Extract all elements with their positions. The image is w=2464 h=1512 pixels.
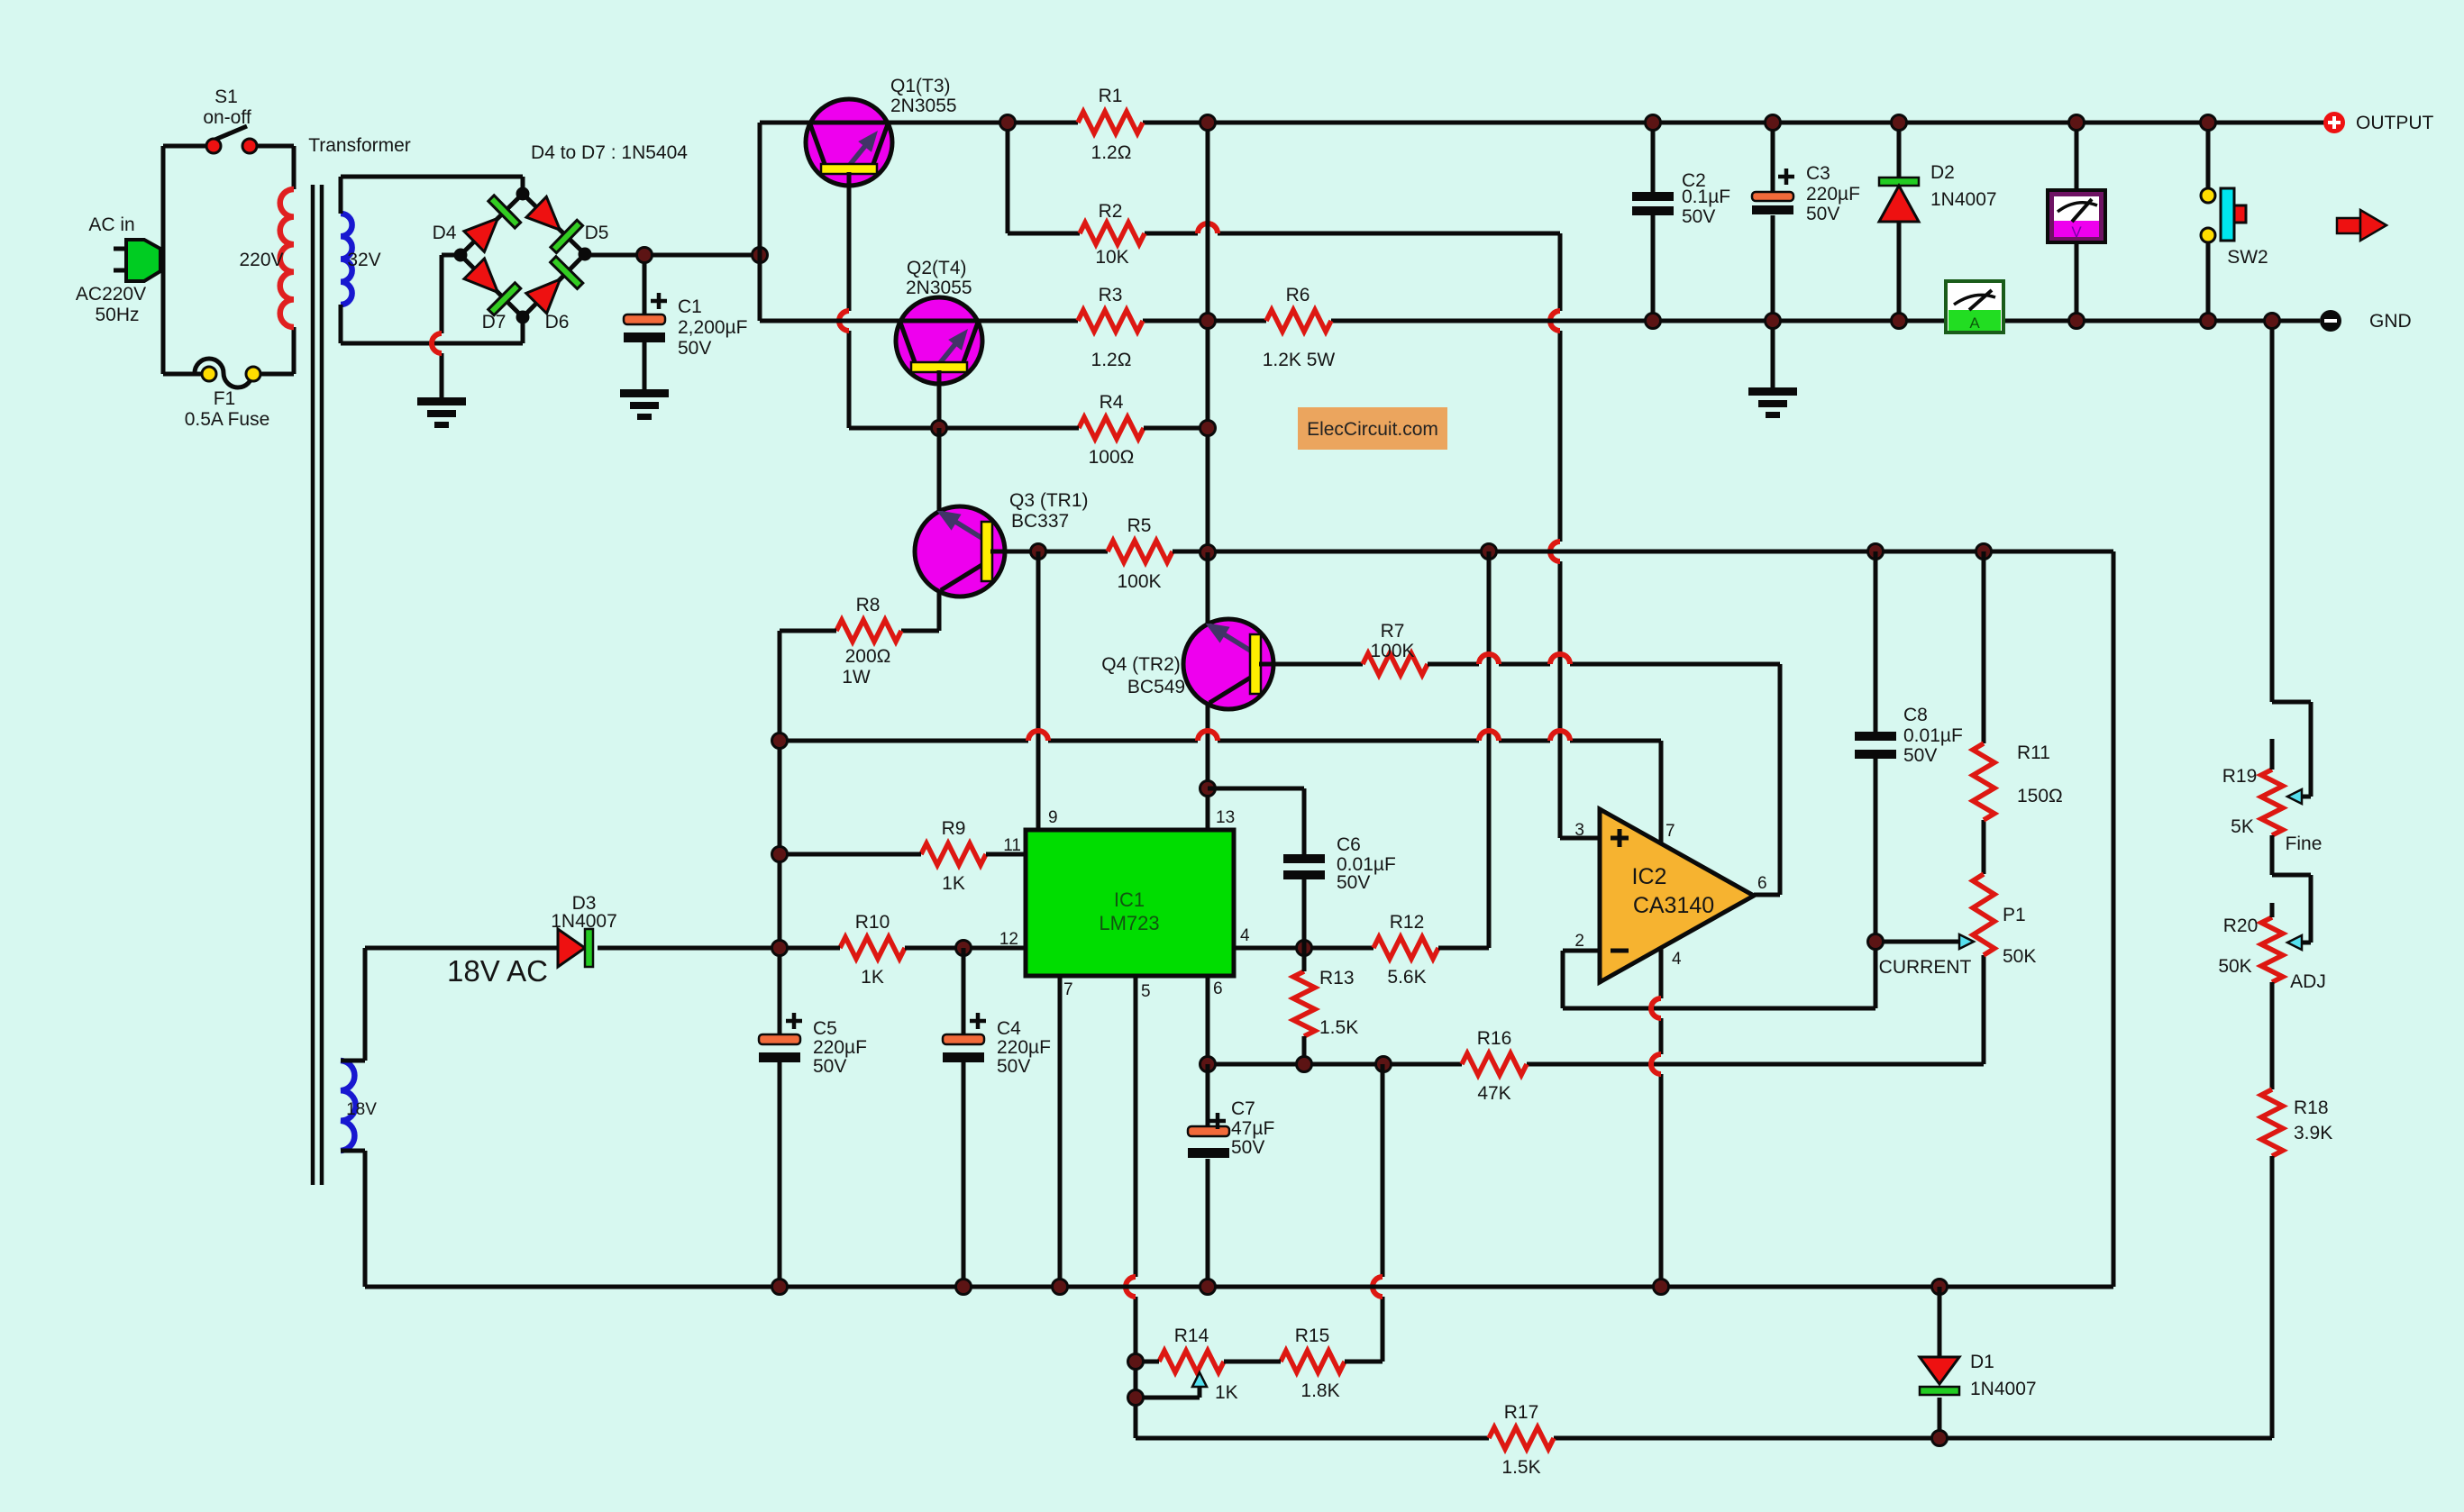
hop sense wire over GND rail [1550, 311, 1560, 331]
wire R18 bottom to R17 row [2270, 1156, 2275, 1438]
label C1 2,200uF 50V [678, 296, 747, 359]
label C4 220uF 50V [997, 1018, 1051, 1077]
svg-text:BC549: BC549 [1127, 677, 1185, 697]
switch SW2 body [2221, 188, 2246, 241]
label S1 [203, 87, 251, 128]
label Fine [2286, 833, 2323, 854]
wire 32V winding to bridge [341, 177, 523, 343]
label D6 [545, 312, 570, 332]
node drive rail R11 [1976, 544, 1992, 560]
wire R20 to R18 [2270, 982, 2275, 1089]
label OUTPUT [2356, 113, 2434, 133]
svg-text:50V: 50V [1682, 206, 1715, 227]
label R19 5K [2222, 766, 2258, 837]
svg-text:18V AC: 18V AC [447, 954, 548, 988]
label R20 50K [2218, 915, 2258, 977]
svg-text:D7: D7 [482, 312, 506, 332]
node bottom rail pin4 IC2 [1654, 1280, 1669, 1295]
svg-text:R11: R11 [2017, 742, 2050, 763]
svg-text:100Ω: 100Ω [1089, 447, 1135, 468]
svg-text:on-off: on-off [203, 107, 251, 128]
node bottom rail C7 [1200, 1280, 1216, 1295]
svg-text:R20: R20 [2223, 915, 2259, 936]
resistor R17 [1489, 1427, 1554, 1449]
junction bridge top [516, 187, 530, 201]
label R4 100ohm [1089, 392, 1135, 468]
label R8 200ohm 1W [842, 595, 890, 688]
hop R7 row over sense wire [1550, 654, 1570, 664]
svg-text:CURRENT: CURRENT [1879, 957, 1972, 978]
label R11 150ohm [2017, 742, 2063, 806]
label R10 1K [855, 912, 890, 988]
resistor R10 [840, 937, 905, 959]
svg-text:R2: R2 [1099, 201, 1123, 222]
capacitor C7 [1188, 1126, 1229, 1158]
wire R19 bottom jog to R20 wiper [2272, 835, 2311, 943]
wire R9 row [780, 852, 1026, 857]
label 1K R14 [1215, 1382, 1238, 1403]
hop pin4 over minus loop [1651, 998, 1661, 1018]
svg-text:D6: D6 [545, 312, 570, 332]
label Q2(T4) 2N3055 [906, 258, 972, 298]
svg-text:1.8K: 1.8K [1300, 1380, 1339, 1401]
svg-text:50V: 50V [1231, 1137, 1264, 1158]
label R9 1K [942, 818, 966, 894]
hop y822 over x1652 [1479, 731, 1499, 741]
svg-text:100K: 100K [1370, 641, 1414, 661]
svg-text:150Ω: 150Ω [2017, 786, 2063, 806]
resistor R14 (pot) [1159, 1351, 1224, 1372]
wire x1652 vertical [1444, 551, 1489, 948]
wire ground row y356 [760, 319, 2320, 323]
svg-text:4: 4 [1672, 950, 1682, 969]
ground symbol at C1 [620, 389, 669, 420]
svg-text:R17: R17 [1504, 1402, 1539, 1423]
svg-text:GND: GND [2369, 311, 2412, 332]
label Transformer [308, 135, 411, 156]
wire R8 left to x865 vertical [780, 631, 836, 1287]
label C7 47uF 50V [1231, 1098, 1274, 1158]
wire Q3 emitter to R4 node [937, 428, 942, 511]
svg-text:32V: 32V [347, 250, 380, 270]
wire V meter leads [2075, 123, 2079, 321]
svg-text:3: 3 [1574, 821, 1584, 840]
transistor Q4 [1183, 619, 1273, 709]
wire R14 R15 row [1136, 1360, 1383, 1364]
resistor R3 [1078, 310, 1143, 332]
capacitor C4 [943, 1034, 984, 1062]
node bottom rail C4 [956, 1280, 972, 1295]
node top rail C2 [1646, 115, 1661, 131]
diode D5 [526, 196, 583, 252]
plus C1 [651, 293, 667, 309]
resistor R6 [1266, 310, 1331, 332]
wire pin9 vertical [1036, 551, 1041, 830]
wire C3 leads [1771, 123, 1775, 387]
svg-text:1.2K 5W: 1.2K 5W [1263, 350, 1336, 370]
node drive rail C8 [1868, 544, 1884, 560]
hop R7 row over x1652 [1479, 654, 1499, 664]
svg-text:R6: R6 [1286, 285, 1310, 305]
junction bridge left [454, 249, 468, 262]
hop sense wire over drive rail [1550, 542, 1560, 561]
svg-text:6: 6 [1757, 874, 1767, 893]
node C8 P1 wiper minus [1868, 934, 1884, 950]
transformer primary coil 220V [280, 189, 294, 327]
label IC2 CA3140 [1632, 864, 1715, 918]
wire x1534 vertical [1381, 1064, 1385, 1362]
hop y822 over sense wire [1550, 731, 1570, 741]
svg-text:1K: 1K [942, 873, 965, 894]
svg-text:LM723: LM723 [1099, 912, 1159, 934]
svg-text:220V: 220V [239, 250, 283, 270]
pin label 5 IC1 [1141, 982, 1151, 1001]
svg-text:18V: 18V [346, 1100, 377, 1119]
fuse F1 [195, 359, 260, 387]
meter A body [1946, 281, 2003, 332]
svg-text:7: 7 [1665, 822, 1675, 841]
wire R11 P1 column [1982, 551, 1986, 874]
label Q1(T3) 2N3055 [890, 76, 957, 116]
potentiometer R20 (vertical) [2261, 917, 2283, 982]
node top rail SW2 [2201, 115, 2216, 131]
wire Q3 base to R5 [990, 550, 1108, 554]
label R7 100K [1370, 621, 1414, 661]
svg-text:ADJ: ADJ [2290, 971, 2326, 992]
diode D3 [558, 929, 593, 967]
IC U1 LM723 box [1026, 830, 1234, 976]
svg-text:50K: 50K [2003, 946, 2036, 967]
svg-text:R10: R10 [855, 912, 890, 933]
node drive rail x1652 [1482, 544, 1497, 560]
label F1 0.5A Fuse [185, 388, 270, 430]
pin label 11 [1003, 836, 1021, 855]
svg-text:50V: 50V [1806, 204, 1839, 224]
wire R12 right up x1652 (in x1652 group) [1438, 946, 1444, 951]
svg-text:Q3 (TR1): Q3 (TR1) [1009, 490, 1089, 511]
label R17 1.5K [1501, 1402, 1540, 1478]
node wiper row [1128, 1390, 1144, 1406]
label GND [2369, 311, 2412, 332]
pin label 13 [1216, 808, 1235, 827]
wire C2 leads [1651, 123, 1656, 321]
svg-text:C7: C7 [1231, 1098, 1255, 1119]
svg-text:C4: C4 [997, 1018, 1021, 1039]
ground symbol at bridge [417, 397, 466, 428]
wire P1 wiper from C8 node [1875, 940, 1961, 944]
plus C5 [786, 1013, 802, 1029]
wire base drive row y822 [780, 741, 1661, 843]
node Q3 base [1031, 544, 1046, 560]
svg-text:1.5K: 1.5K [1319, 1017, 1358, 1038]
capacitor C6 [1283, 854, 1325, 879]
meter V body [2048, 190, 2105, 242]
svg-text:AC220V: AC220V [76, 284, 146, 305]
svg-text:220µF: 220µF [813, 1037, 867, 1058]
wiper arrow R14 [1192, 1372, 1207, 1387]
svg-text:50V: 50V [1903, 745, 1937, 766]
plus C7 [1209, 1113, 1226, 1129]
node gnd rail SW2 [2201, 314, 2216, 329]
label R16 47K [1477, 1028, 1512, 1104]
node C1 top [637, 248, 653, 263]
wire R17 row [1136, 1436, 2272, 1441]
svg-text:CA3140: CA3140 [1633, 893, 1714, 918]
label D4 to D7 : 1N5404 [531, 142, 688, 163]
svg-text:7: 7 [1063, 980, 1073, 999]
svg-text:V: V [2071, 223, 2082, 241]
svg-text:50V: 50V [997, 1056, 1030, 1077]
label R1 1.2ohm [1091, 86, 1132, 163]
svg-text:1.5K: 1.5K [1501, 1457, 1540, 1478]
wire drive rail y612 [1208, 551, 2113, 1287]
node R3 R6 junction [1200, 314, 1216, 329]
plus sign IC2 [1611, 829, 1629, 847]
junction bridge right [579, 248, 592, 261]
resistor R13 (vertical) [1293, 971, 1315, 1036]
capacitor C5 [759, 1034, 800, 1062]
svg-text:R12: R12 [1390, 912, 1425, 933]
svg-text:11: 11 [1003, 836, 1021, 855]
connector AC plug [126, 240, 160, 281]
wire AC-input left loop [114, 146, 294, 374]
svg-text:C1: C1 [678, 296, 702, 317]
node R4 right [1200, 421, 1216, 436]
svg-text:ElecCircuit.com: ElecCircuit.com [1307, 419, 1438, 440]
node R14 left [1128, 1354, 1144, 1370]
label IC1 LM723 [1099, 888, 1159, 934]
wire pin5 IC1 down [1134, 976, 1138, 1438]
hop y822 over pin9 [1028, 731, 1048, 741]
capacitor C8 [1855, 732, 1896, 759]
svg-text:C6: C6 [1337, 834, 1361, 855]
wire pin7 IC1 down [1058, 976, 1063, 1287]
svg-text:R13: R13 [1319, 968, 1355, 988]
wire pin4 row [1234, 946, 1373, 951]
wire R4 row [939, 426, 1208, 431]
wire Q4 collector to pin13 [1206, 705, 1210, 830]
svg-text:3.9K: 3.9K [2294, 1123, 2332, 1143]
hop ground wire over 32V return [432, 333, 442, 353]
potentiometer P1 (vertical) [1973, 874, 1994, 955]
svg-text:D4 to D7 : 1N5404: D4 to D7 : 1N5404 [531, 142, 688, 163]
resistor R16 [1462, 1053, 1527, 1075]
svg-text:Fine: Fine [2286, 833, 2323, 854]
svg-text:C3: C3 [1806, 163, 1830, 184]
hop x1534 over bottom rail [1373, 1277, 1383, 1297]
label C2 0.1uF 50V [1682, 170, 1730, 227]
label R12 5.6K [1387, 912, 1426, 988]
node pin4 R12 R13 [1297, 941, 1312, 956]
svg-text:50V: 50V [678, 338, 711, 359]
wire R2 to IC2 plus input [1145, 233, 1600, 838]
svg-text:13: 13 [1216, 808, 1235, 827]
hop Q1 emitter over GND rail [839, 311, 849, 331]
svg-text:0.5A Fuse: 0.5A Fuse [185, 409, 270, 430]
switch S1 lever [213, 126, 247, 141]
node corner to pass transistors [753, 248, 768, 263]
label P1 50K [2003, 905, 2036, 967]
node bottom rail pin7 [1053, 1280, 1068, 1295]
svg-text:1K: 1K [861, 967, 884, 988]
label D1 1N4007 [1970, 1352, 2037, 1399]
svg-text:R19: R19 [2222, 766, 2258, 787]
svg-text:50K: 50K [2218, 956, 2251, 977]
svg-text:Q1(T3): Q1(T3) [890, 76, 951, 96]
label R3 1.2ohm [1091, 285, 1132, 370]
plus C3 [1778, 169, 1794, 185]
svg-text:R14: R14 [1174, 1325, 1209, 1346]
node top rail D2 [1892, 115, 1907, 131]
label R6 1.2K 5W [1263, 285, 1336, 370]
transistor Q3 [915, 506, 1005, 597]
node pin6 C7 [1200, 1057, 1216, 1072]
wire bridge diamond edges [461, 194, 585, 317]
svg-text:OUTPUT: OUTPUT [2356, 113, 2434, 133]
label R13 1.5K [1319, 968, 1358, 1038]
pin label 7 IC2 [1665, 822, 1675, 841]
svg-text:5.6K: 5.6K [1387, 967, 1426, 988]
svg-text:1N4007: 1N4007 [551, 911, 617, 932]
hop pin4 over R16 row [1651, 1054, 1661, 1074]
svg-text:R16: R16 [1477, 1028, 1512, 1049]
resistor R18 (vertical) [2261, 1089, 2283, 1156]
wire Q4 emitter [1206, 552, 1210, 624]
svg-text:2N3055: 2N3055 [890, 96, 957, 116]
wire D2 leads [1897, 123, 1902, 321]
svg-text:2: 2 [1574, 932, 1584, 951]
svg-text:SW2: SW2 [2227, 247, 2268, 268]
op-amp IC2 CA3140 [1600, 809, 1754, 982]
label C8 0.01uF 50V [1903, 705, 1963, 766]
wire R16 row [1208, 955, 1984, 1064]
wire SW2 leads [2206, 123, 2211, 321]
diode D2 [1879, 178, 1919, 222]
capacitor C1 [624, 314, 665, 342]
arrow output indicator [2337, 210, 2386, 241]
wiper arrow R19 [2287, 789, 2302, 804]
wire Q1 emitter [849, 172, 939, 428]
label 32V [347, 250, 380, 270]
node drive rail Q4 [1200, 545, 1216, 560]
diode D7 [464, 259, 521, 315]
svg-text:F1: F1 [214, 388, 236, 409]
wire 18V winding bottom to rail [341, 1151, 365, 1287]
resistor R15 [1281, 1351, 1345, 1372]
label 220V [239, 250, 283, 270]
wire pin6 IC1 down [1206, 976, 1210, 1064]
node R10 right C4 [956, 941, 972, 956]
svg-text:R3: R3 [1099, 285, 1123, 305]
label AC in [88, 214, 134, 235]
capacitor C3 [1752, 192, 1793, 214]
svg-text:1N4007: 1N4007 [1930, 189, 1997, 210]
node D1 R17 [1932, 1431, 1948, 1446]
svg-text:R8: R8 [856, 595, 881, 615]
resistor R5 [1108, 541, 1173, 562]
node bottom rail C5 [772, 1280, 788, 1295]
svg-text:4: 4 [1240, 926, 1250, 945]
wire R14 wiper [1136, 1387, 1200, 1398]
node R1 left [1000, 115, 1016, 131]
node gnd rail C2 [1646, 314, 1661, 329]
pin label 4 IC2 [1672, 950, 1682, 969]
svg-text:50V: 50V [1337, 872, 1370, 893]
pin label 2 IC2 [1574, 932, 1584, 951]
switch SW2 contacts [2201, 188, 2215, 242]
label R14 [1174, 1325, 1209, 1346]
diode D4 [464, 196, 521, 252]
switch S1 contact left [206, 139, 221, 153]
wire C1 leads [643, 255, 647, 389]
transistor Q1 [806, 99, 892, 186]
wire C4 leads [962, 948, 966, 1287]
badge ElecCircuit.com [1298, 407, 1447, 450]
pin label 3 IC2 [1574, 821, 1584, 840]
node top rail V [2069, 115, 2085, 131]
potentiometer R19 (vertical) [2261, 770, 2283, 835]
node gnd rail C3 [1766, 314, 1781, 329]
svg-text:12: 12 [999, 930, 1018, 949]
pin label 6 IC2 [1757, 874, 1767, 893]
svg-text:BC337: BC337 [1011, 511, 1069, 532]
junction bridge bottom [516, 311, 530, 324]
node R1 right [1200, 115, 1216, 131]
svg-text:C8: C8 [1903, 705, 1928, 725]
wire x843 vertical [758, 123, 762, 321]
resistor R11 (vertical) [1973, 743, 1994, 820]
svg-text:220µF: 220µF [997, 1037, 1051, 1058]
capacitor C2 [1632, 192, 1674, 215]
wire R13 leads [1302, 948, 1307, 1064]
svg-text:D1: D1 [1970, 1352, 1994, 1372]
wire R2 branch from R1 node [1008, 123, 1080, 233]
svg-text:0.1µF: 0.1µF [1682, 187, 1730, 207]
wire R7 to IC2 output [1428, 664, 1780, 895]
svg-text:2N3055: 2N3055 [906, 278, 972, 298]
label D7 [482, 312, 506, 332]
svg-text:Transformer: Transformer [308, 135, 411, 156]
resistor R8 [836, 620, 901, 642]
hop R2 wire over x1340 [1198, 223, 1218, 233]
node gnd rail D2 [1892, 314, 1907, 329]
svg-text:5K: 5K [2231, 816, 2254, 837]
svg-text:Q2(T4): Q2(T4) [907, 258, 967, 278]
resistor R9 [921, 843, 986, 865]
label ADJ [2290, 971, 2326, 992]
svg-text:1N4007: 1N4007 [1970, 1379, 2037, 1399]
svg-text:R18: R18 [2294, 1098, 2329, 1118]
svg-text:IC2: IC2 [1632, 864, 1667, 889]
svg-text:1K: 1K [1215, 1382, 1238, 1403]
svg-text:50V: 50V [813, 1056, 846, 1077]
svg-text:Q4 (TR2): Q4 (TR2) [1101, 654, 1181, 675]
svg-text:R4: R4 [1100, 392, 1124, 413]
diode D1 [1920, 1357, 1959, 1395]
svg-text:D5: D5 [585, 223, 609, 243]
wire right column from GND [2272, 321, 2311, 797]
label C6 0.01uF 50V [1337, 834, 1396, 893]
svg-text:10K: 10K [1095, 247, 1128, 268]
node R16 row x1534 [1376, 1057, 1392, 1072]
svg-text:P1: P1 [2003, 905, 2026, 925]
wire R5 right to drive rail [1173, 550, 1208, 554]
wire IC2 pin4 down [1659, 948, 1664, 1287]
wire D3 R10 row [365, 946, 1026, 951]
svg-text:100K: 100K [1117, 571, 1161, 592]
label C3 220uF 50V [1806, 163, 1860, 224]
wire Q4 base to R7 [1259, 662, 1363, 667]
